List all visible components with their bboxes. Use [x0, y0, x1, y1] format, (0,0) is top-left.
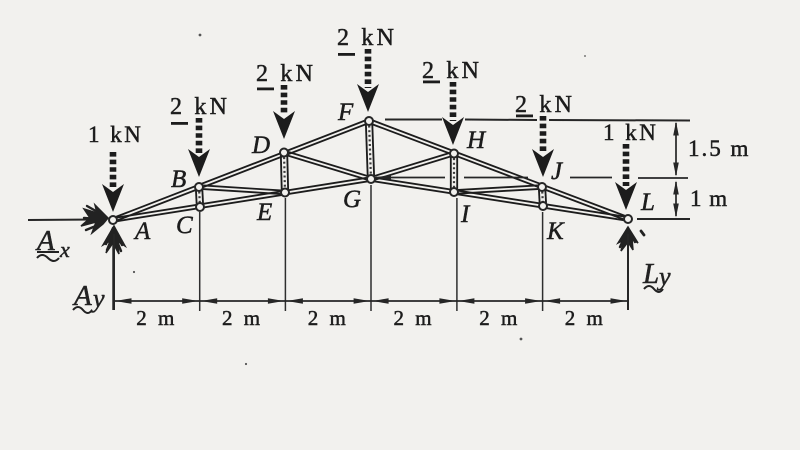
svg-text:2 m: 2 m	[222, 306, 263, 330]
svg-text:x: x	[59, 237, 70, 262]
svg-text:K: K	[546, 218, 565, 245]
svg-text:L: L	[642, 258, 659, 290]
svg-text:F: F	[337, 99, 354, 126]
svg-text:2 m: 2 m	[565, 306, 606, 330]
svg-text:B: B	[171, 166, 186, 193]
svg-text:D: D	[251, 132, 270, 159]
svg-text:y: y	[656, 262, 671, 291]
svg-text:2 kN: 2 kN	[170, 94, 230, 120]
svg-text:2 kN: 2 kN	[422, 58, 482, 84]
svg-text:G: G	[343, 186, 361, 213]
svg-text:L: L	[640, 189, 655, 216]
svg-text:2 m: 2 m	[136, 306, 177, 330]
svg-text:2 kN: 2 kN	[256, 61, 316, 87]
svg-text:E: E	[256, 199, 272, 226]
svg-text:1.5 m: 1.5 m	[688, 136, 750, 161]
svg-text:2 kN: 2 kN	[515, 92, 575, 118]
svg-text:2 m: 2 m	[393, 306, 434, 330]
svg-text:2 m: 2 m	[308, 306, 349, 330]
svg-text:1 m: 1 m	[690, 186, 728, 211]
svg-text:J: J	[551, 158, 564, 185]
svg-text:2 kN: 2 kN	[337, 25, 397, 51]
svg-text:1 kN: 1 kN	[603, 120, 658, 145]
svg-text:1 kN: 1 kN	[88, 122, 143, 147]
svg-text:A: A	[133, 218, 151, 245]
svg-text:y: y	[90, 284, 105, 313]
svg-text:C: C	[176, 212, 193, 239]
svg-text:H: H	[466, 127, 487, 154]
svg-text:2 m: 2 m	[479, 306, 520, 330]
